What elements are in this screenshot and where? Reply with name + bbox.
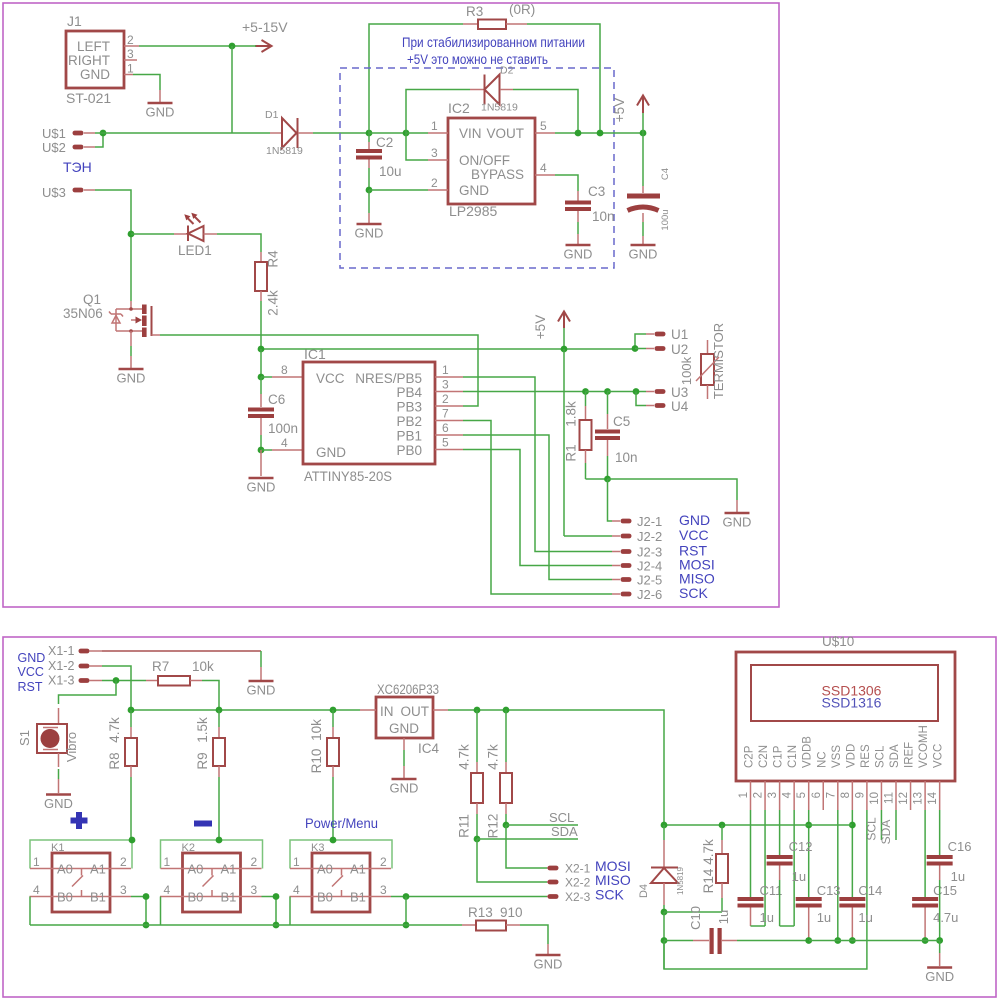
- svg-text:8: 8: [840, 792, 852, 798]
- net label SDA wire: [477, 824, 578, 839]
- svg-text:5: 5: [442, 436, 449, 450]
- capacitor C3 10n: [565, 184, 615, 234]
- svg-text:10u: 10u: [379, 164, 402, 179]
- wire R8 to button: [130, 777, 132, 840]
- svg-text:PB3: PB3: [396, 400, 422, 415]
- junction VCC rail left: [661, 822, 668, 829]
- svg-text:LP2985: LP2985: [449, 203, 497, 219]
- LED LED1: [131, 213, 217, 258]
- wire C6/VCC column: [260, 349, 262, 377]
- wire C6 to ground: [260, 450, 262, 476]
- wire display GND rail: [809, 940, 940, 942]
- svg-text:R12: R12: [486, 814, 501, 839]
- IC1 pin 6: [435, 421, 463, 435]
- svg-text:SDA: SDA: [551, 824, 578, 839]
- svg-text:B1: B1: [350, 890, 366, 905]
- wire X1-1 ground drop: [260, 651, 262, 667]
- svg-text:VCC: VCC: [933, 744, 945, 768]
- wire D4 to R14 bottom: [664, 911, 722, 913]
- svg-text:D2: D2: [500, 65, 514, 77]
- svg-text:VCC: VCC: [679, 527, 709, 543]
- wire VIN node up to D2: [406, 90, 470, 134]
- IC1 pin 3: [435, 378, 463, 392]
- ground symbol below R13: [534, 944, 563, 972]
- svg-text:7: 7: [825, 792, 837, 798]
- svg-text:R3: R3: [466, 4, 483, 19]
- wire pin2 C2N down: [764, 810, 766, 926]
- junction C2 node: [366, 130, 373, 137]
- junction D2 VOUT: [575, 130, 582, 137]
- button K3: [290, 840, 393, 912]
- wire SDA net: [476, 814, 478, 839]
- wire pin8 VDD down: [851, 810, 853, 897]
- junction SDA: [474, 836, 481, 843]
- junction SCL: [503, 822, 510, 829]
- junction C16 bottom: [936, 937, 943, 944]
- junction R3 VOUT: [597, 130, 604, 137]
- svg-text:D4: D4: [638, 884, 650, 898]
- pin U4: [636, 392, 689, 415]
- junction R9 top: [216, 707, 223, 714]
- wire K1 pin3 to rail: [131, 897, 146, 926]
- svg-text:(0R): (0R): [509, 2, 535, 17]
- svg-text:X2-2: X2-2: [565, 876, 591, 890]
- ground symbol below S1: [44, 795, 73, 812]
- svg-text:R4: R4: [266, 250, 281, 268]
- wire Q1 gate to PB3: [160, 335, 478, 406]
- wire pin5 VDDB to VCC rail: [808, 810, 810, 897]
- wire pin3 C1P down to C12: [779, 810, 781, 855]
- svg-text:C3: C3: [588, 184, 605, 199]
- junction +5V arrow: [561, 346, 568, 353]
- svg-text:A1: A1: [90, 862, 106, 877]
- diode D1 1N5819: [265, 109, 313, 157]
- regulator IC4 XC6206P33: [376, 682, 440, 756]
- wire U$2 up to main rail: [95, 133, 103, 147]
- diode D2 1N5819: [470, 65, 518, 114]
- note text (Russian): [402, 34, 585, 67]
- svg-text:1.8k: 1.8k: [564, 401, 579, 427]
- display U$10 SSD1306/SSD1316: [736, 634, 955, 781]
- svg-text:RST: RST: [18, 680, 43, 694]
- wire X1-2 to VCC rail: [102, 666, 131, 710]
- svg-text:GND: GND: [80, 67, 110, 82]
- svg-text:C12: C12: [789, 839, 813, 854]
- supply +5V (logic): [533, 312, 570, 350]
- svg-text:SCL: SCL: [549, 810, 574, 825]
- junction C5 top: [604, 388, 611, 395]
- pin X1-3: [48, 674, 102, 688]
- pin J2-5 (MISO): [612, 571, 715, 588]
- wire PB2 to J2-6: [463, 421, 612, 595]
- svg-text:R14: R14: [701, 868, 716, 893]
- svg-text:IC1: IC1: [304, 346, 326, 362]
- IC4 OUT pin: [433, 709, 448, 711]
- wire pin1 C2P down to C11: [750, 810, 752, 897]
- svg-text:K2: K2: [182, 842, 195, 854]
- wire C2 node up to R3: [369, 24, 463, 133]
- ground symbol below IC4: [390, 779, 419, 796]
- U$10 pin 11 (SDA): [884, 781, 897, 810]
- svg-text:1N5819: 1N5819: [676, 866, 685, 895]
- svg-text:C15: C15: [933, 883, 957, 898]
- svg-text:+5V это можно не ставить: +5V это можно не ставить: [407, 51, 548, 67]
- dashed optional-regulator box: [340, 68, 614, 268]
- svg-text:R9: R9: [195, 752, 210, 769]
- svg-text:Vibro: Vibro: [64, 732, 79, 762]
- svg-text:GND: GND: [316, 445, 346, 460]
- resistor R12 4.7k: [486, 710, 513, 838]
- svg-text:C1N: C1N: [787, 745, 799, 768]
- svg-text:4.7k: 4.7k: [457, 744, 472, 770]
- resistor R8 4.7k: [107, 710, 137, 777]
- resistor R13 910: [462, 905, 523, 931]
- resistor R9 1.5k: [195, 710, 225, 777]
- resistor R3 (0R): [463, 2, 535, 29]
- IC4 IN pin: [360, 709, 376, 711]
- svg-text:1: 1: [33, 855, 40, 869]
- wire R1 bottom to C5 bottom: [586, 478, 608, 480]
- junction K1 top: [129, 837, 136, 844]
- svg-text:2: 2: [127, 33, 134, 47]
- wire J1 pin2 to +5-15V node: [139, 45, 232, 47]
- svg-text:VSS: VSS: [831, 745, 843, 768]
- wire C2 node to VIN node: [369, 132, 406, 134]
- junction C15 bottom: [922, 937, 929, 944]
- capacitor C4 100u (electrolytic): [627, 133, 671, 244]
- junction R12 top: [503, 707, 510, 714]
- ground symbol below J1: [146, 90, 175, 120]
- ground symbol below C4: [629, 245, 658, 262]
- svg-text:PB0: PB0: [396, 443, 422, 458]
- capacitor C14 1u: [839, 883, 882, 941]
- svg-text:K1: K1: [51, 842, 64, 854]
- wire PB0 to J2-4: [463, 450, 612, 566]
- junction R14 top: [719, 822, 726, 829]
- svg-text:U$3: U$3: [42, 185, 66, 200]
- svg-text:B0: B0: [57, 890, 73, 905]
- svg-text:1: 1: [164, 855, 171, 869]
- svg-text:10n: 10n: [592, 209, 615, 224]
- svg-text:VCC: VCC: [18, 665, 44, 679]
- svg-text:GND: GND: [925, 969, 954, 984]
- svg-text:1u: 1u: [858, 910, 872, 925]
- svg-text:Power/Menu: Power/Menu: [305, 815, 378, 831]
- regulator IC2 LP2985: [448, 100, 535, 219]
- junction K3 top: [330, 837, 337, 844]
- svg-text:14: 14: [927, 791, 939, 804]
- svg-text:B1: B1: [90, 890, 106, 905]
- svg-text:NC: NC: [816, 751, 828, 768]
- svg-text:IREF: IREF: [904, 742, 916, 768]
- wire display VCC rail: [664, 824, 852, 826]
- MCU IC1 ATTINY85-20S: [303, 346, 435, 484]
- svg-text:2: 2: [380, 855, 387, 869]
- pin U3: [646, 385, 688, 400]
- junction C10 left: [661, 937, 668, 944]
- svg-text:R7: R7: [152, 659, 169, 674]
- wire VOUT rail: [555, 132, 643, 134]
- svg-text:RIGHT: RIGHT: [68, 53, 110, 68]
- wire pin13 VCOMH down to C15: [924, 810, 926, 897]
- svg-text:+5-15V: +5-15V: [242, 19, 288, 35]
- wire IC4 OUT to display rail: [448, 710, 664, 825]
- wire U$3 to Q1 drain node: [95, 190, 131, 234]
- svg-text:4.7k: 4.7k: [701, 839, 716, 865]
- wire +5-15V node to arrow: [232, 45, 256, 47]
- pin X1-1: [48, 644, 102, 658]
- svg-text:5: 5: [796, 792, 808, 798]
- ground symbol below Q1: [117, 369, 146, 386]
- wire VIN node down to ON/OFF: [406, 133, 428, 160]
- wire D4 node down: [663, 912, 665, 941]
- svg-text:J2-5: J2-5: [637, 573, 662, 588]
- IC4 GND pin: [403, 738, 405, 778]
- sensor S1 Vibro: [17, 708, 79, 767]
- svg-text:U3: U3: [671, 385, 688, 400]
- svg-text:1: 1: [431, 119, 438, 133]
- capacitor C10 1u (series): [664, 906, 809, 954]
- svg-text:12: 12: [898, 792, 910, 805]
- IC2 pin 2: [428, 176, 448, 190]
- junction R11 top: [474, 707, 481, 714]
- svg-text:R13: R13: [468, 905, 493, 920]
- svg-text:При стабилизированном питании: При стабилизированном питании: [402, 34, 585, 50]
- IC2 pin 1: [428, 119, 448, 133]
- top schematic frame: [3, 3, 779, 607]
- wire pin7 VSS down to GND rail: [837, 810, 839, 941]
- svg-text:VCC: VCC: [316, 371, 345, 386]
- svg-text:K3: K3: [311, 842, 324, 854]
- wire Q1 gate stub: [152, 334, 161, 336]
- junction K2 top: [216, 837, 223, 844]
- capacitor C12 1u: [767, 839, 813, 926]
- label + (plus button): [71, 812, 88, 829]
- junction K1 pin3: [143, 893, 150, 900]
- U$10 pin 1 (C2P): [738, 781, 751, 810]
- svg-text:2: 2: [442, 392, 449, 406]
- junction K3 rail: [403, 922, 410, 929]
- pin J2-3 (RST): [612, 543, 707, 560]
- supply +5V (regulator output): [612, 96, 649, 134]
- resistor R4 2.4k: [255, 250, 281, 316]
- svg-text:NRES/PB5: NRES/PB5: [355, 371, 422, 386]
- junction C13 bottom: [805, 937, 812, 944]
- thermistor 100k TERMISTOR: [679, 323, 726, 399]
- U$10 pin 5 (VDDB): [796, 781, 809, 810]
- wire ADC net R1-C5: [586, 391, 608, 393]
- wire RES rail down: [663, 941, 665, 970]
- svg-text:C2N: C2N: [758, 745, 770, 768]
- IC2 pin 4: [535, 161, 555, 175]
- U$10 pin 7 (VSS): [825, 781, 838, 810]
- svg-text:U4: U4: [671, 399, 689, 414]
- svg-text:J2-2: J2-2: [637, 529, 662, 544]
- wire C11 bottom to C2N: [751, 925, 766, 927]
- IC1 pin 4 (GND): [261, 436, 303, 450]
- pin U$1: [42, 126, 95, 141]
- svg-text:X2-1: X2-1: [565, 862, 591, 876]
- junction VSS bottom: [834, 937, 841, 944]
- svg-text:GND: GND: [44, 796, 73, 811]
- wire R9 to button: [218, 777, 220, 840]
- wire K3 pin4 drop: [289, 897, 291, 926]
- svg-text:X1-3: X1-3: [48, 674, 74, 688]
- wire LED1 to R4: [217, 234, 261, 252]
- transistor Q1 35N06 (n-MOSFET): [63, 292, 152, 337]
- svg-text:100n: 100n: [268, 421, 298, 436]
- svg-text:S1: S1: [17, 730, 32, 746]
- svg-text:5: 5: [540, 119, 547, 133]
- wire SDA down to X2-2: [477, 839, 547, 882]
- svg-text:A1: A1: [221, 862, 237, 877]
- svg-text:ТЭН: ТЭН: [63, 159, 92, 175]
- svg-text:1u: 1u: [716, 910, 731, 924]
- svg-text:4: 4: [33, 883, 40, 897]
- svg-text:GND: GND: [679, 512, 710, 528]
- pin U2: [635, 342, 688, 357]
- svg-text:U$2: U$2: [42, 140, 66, 155]
- U$10 pin 6 (NC): [811, 781, 824, 810]
- svg-text:LED1: LED1: [178, 243, 212, 258]
- svg-text:R11: R11: [457, 814, 472, 838]
- svg-text:C6: C6: [268, 392, 285, 407]
- junction R8 top: [128, 707, 135, 714]
- junction U$1/U$2: [100, 130, 107, 137]
- svg-text:C10: C10: [688, 906, 703, 930]
- svg-text:3: 3: [120, 883, 127, 897]
- svg-text:PB4: PB4: [396, 385, 422, 400]
- svg-text:4: 4: [782, 791, 794, 798]
- U$10 pin 8 (VDD): [840, 781, 853, 810]
- wire main input rail: [95, 132, 270, 134]
- svg-text:U$10: U$10: [822, 634, 854, 649]
- svg-text:C16: C16: [948, 839, 972, 854]
- svg-text:6: 6: [442, 421, 449, 435]
- svg-text:100k: 100k: [679, 356, 694, 385]
- label - (minus button): [194, 821, 212, 827]
- svg-text:GND: GND: [390, 781, 419, 796]
- svg-text:TERMISTOR: TERMISTOR: [711, 323, 726, 399]
- svg-text:ON/OFF: ON/OFF: [459, 153, 510, 168]
- junction IC1 GND: [258, 447, 265, 454]
- svg-text:BYPASS: BYPASS: [471, 167, 524, 182]
- svg-text:J2-3: J2-3: [637, 545, 662, 560]
- svg-text:C2P: C2P: [744, 745, 756, 768]
- ground symbol below C2: [355, 190, 384, 241]
- resistor R7 10k: [146, 659, 214, 686]
- junction K2 rail: [273, 922, 280, 929]
- svg-text:1: 1: [442, 363, 449, 377]
- J1 pin 2: [124, 33, 139, 47]
- ground symbol near J2: [723, 500, 752, 530]
- svg-text:GND: GND: [117, 371, 146, 386]
- capacitor C15 4.7u: [912, 883, 958, 941]
- svg-text:X1-2: X1-2: [48, 659, 74, 673]
- svg-text:1.5k: 1.5k: [195, 717, 210, 743]
- U$10 pin 9 (RES): [854, 781, 867, 810]
- wire C12 bottom to C1N: [780, 925, 795, 927]
- svg-text:4: 4: [164, 883, 171, 897]
- wire K1 pin4 drop: [29, 897, 31, 926]
- wire K2 pin3 to rail: [262, 897, 277, 926]
- IC1 pin 1: [435, 363, 463, 377]
- wire pin11 SDA stub: [895, 810, 897, 840]
- svg-text:10n: 10n: [615, 450, 638, 465]
- junction GND net below R1/C5: [604, 476, 611, 483]
- capacitor C2 10u: [356, 133, 402, 190]
- svg-text:PB2: PB2: [396, 414, 422, 429]
- svg-text:SDA: SDA: [889, 744, 901, 768]
- svg-text:GND: GND: [146, 105, 175, 120]
- svg-text:10: 10: [869, 792, 881, 805]
- svg-text:SDA: SDA: [879, 820, 893, 845]
- pin J2-1 (GND): [612, 512, 710, 529]
- svg-text:13: 13: [913, 792, 925, 805]
- svg-text:3: 3: [380, 883, 387, 897]
- svg-text:35N06: 35N06: [63, 306, 103, 321]
- svg-text:J2-6: J2-6: [637, 587, 662, 602]
- svg-text:VOUT: VOUT: [486, 126, 524, 141]
- svg-text:1: 1: [293, 855, 300, 869]
- svg-text:10k: 10k: [309, 719, 324, 741]
- svg-text:VDDB: VDDB: [802, 736, 814, 768]
- svg-text:SSD1316: SSD1316: [822, 695, 882, 711]
- svg-text:4: 4: [540, 161, 547, 175]
- svg-text:X2-3: X2-3: [565, 890, 591, 904]
- svg-text:LEFT: LEFT: [77, 39, 110, 54]
- wire U$3 node down to Q1 drain: [130, 234, 132, 301]
- IC1 pin 8 (VCC): [261, 363, 303, 377]
- wire NRES to J2-3: [463, 377, 612, 552]
- wire pin10 SCL stub: [880, 810, 882, 840]
- svg-text:4.7u: 4.7u: [933, 910, 958, 925]
- svg-text:A0: A0: [188, 862, 204, 877]
- svg-text:ATTINY85-20S: ATTINY85-20S: [304, 468, 392, 484]
- junction K2 pin3: [273, 893, 280, 900]
- svg-text:Q1: Q1: [83, 292, 101, 307]
- svg-text:2: 2: [431, 176, 438, 190]
- pin U$2: [42, 140, 95, 155]
- IC1 pin 2: [435, 392, 463, 406]
- junction IC1 VCC: [258, 374, 265, 381]
- svg-text:GND: GND: [389, 721, 419, 736]
- wire VIN node to IC2 VIN: [406, 132, 428, 134]
- pin J2-2 (VCC): [612, 527, 709, 544]
- svg-text:GND: GND: [534, 957, 563, 972]
- svg-text:2.4k: 2.4k: [266, 290, 281, 316]
- U$10 pin 12 (IREF): [898, 781, 911, 810]
- svg-text:J2-4: J2-4: [637, 559, 662, 574]
- svg-text:OUT: OUT: [401, 704, 430, 719]
- diode D4 1N5819: [638, 825, 685, 912]
- wire J1 pin1 to ground: [133, 75, 160, 91]
- U$10 pin 10 (SCL): [869, 781, 882, 810]
- junction D4 anode: [661, 909, 668, 916]
- svg-text:1u: 1u: [817, 910, 831, 925]
- wire to ground (right): [608, 479, 738, 500]
- ground symbol for X1-1: [247, 667, 276, 698]
- svg-text:R1: R1: [564, 444, 579, 461]
- wire pin4 C1N down: [793, 810, 795, 926]
- svg-text:ST-021: ST-021: [66, 90, 111, 106]
- svg-text:910: 910: [500, 905, 523, 920]
- svg-text:4.7k: 4.7k: [107, 717, 122, 743]
- wire K2 pin4 drop: [160, 897, 162, 926]
- bottom schematic frame: [3, 637, 996, 997]
- junction C14 bottom: [849, 937, 856, 944]
- svg-text:3: 3: [767, 792, 779, 798]
